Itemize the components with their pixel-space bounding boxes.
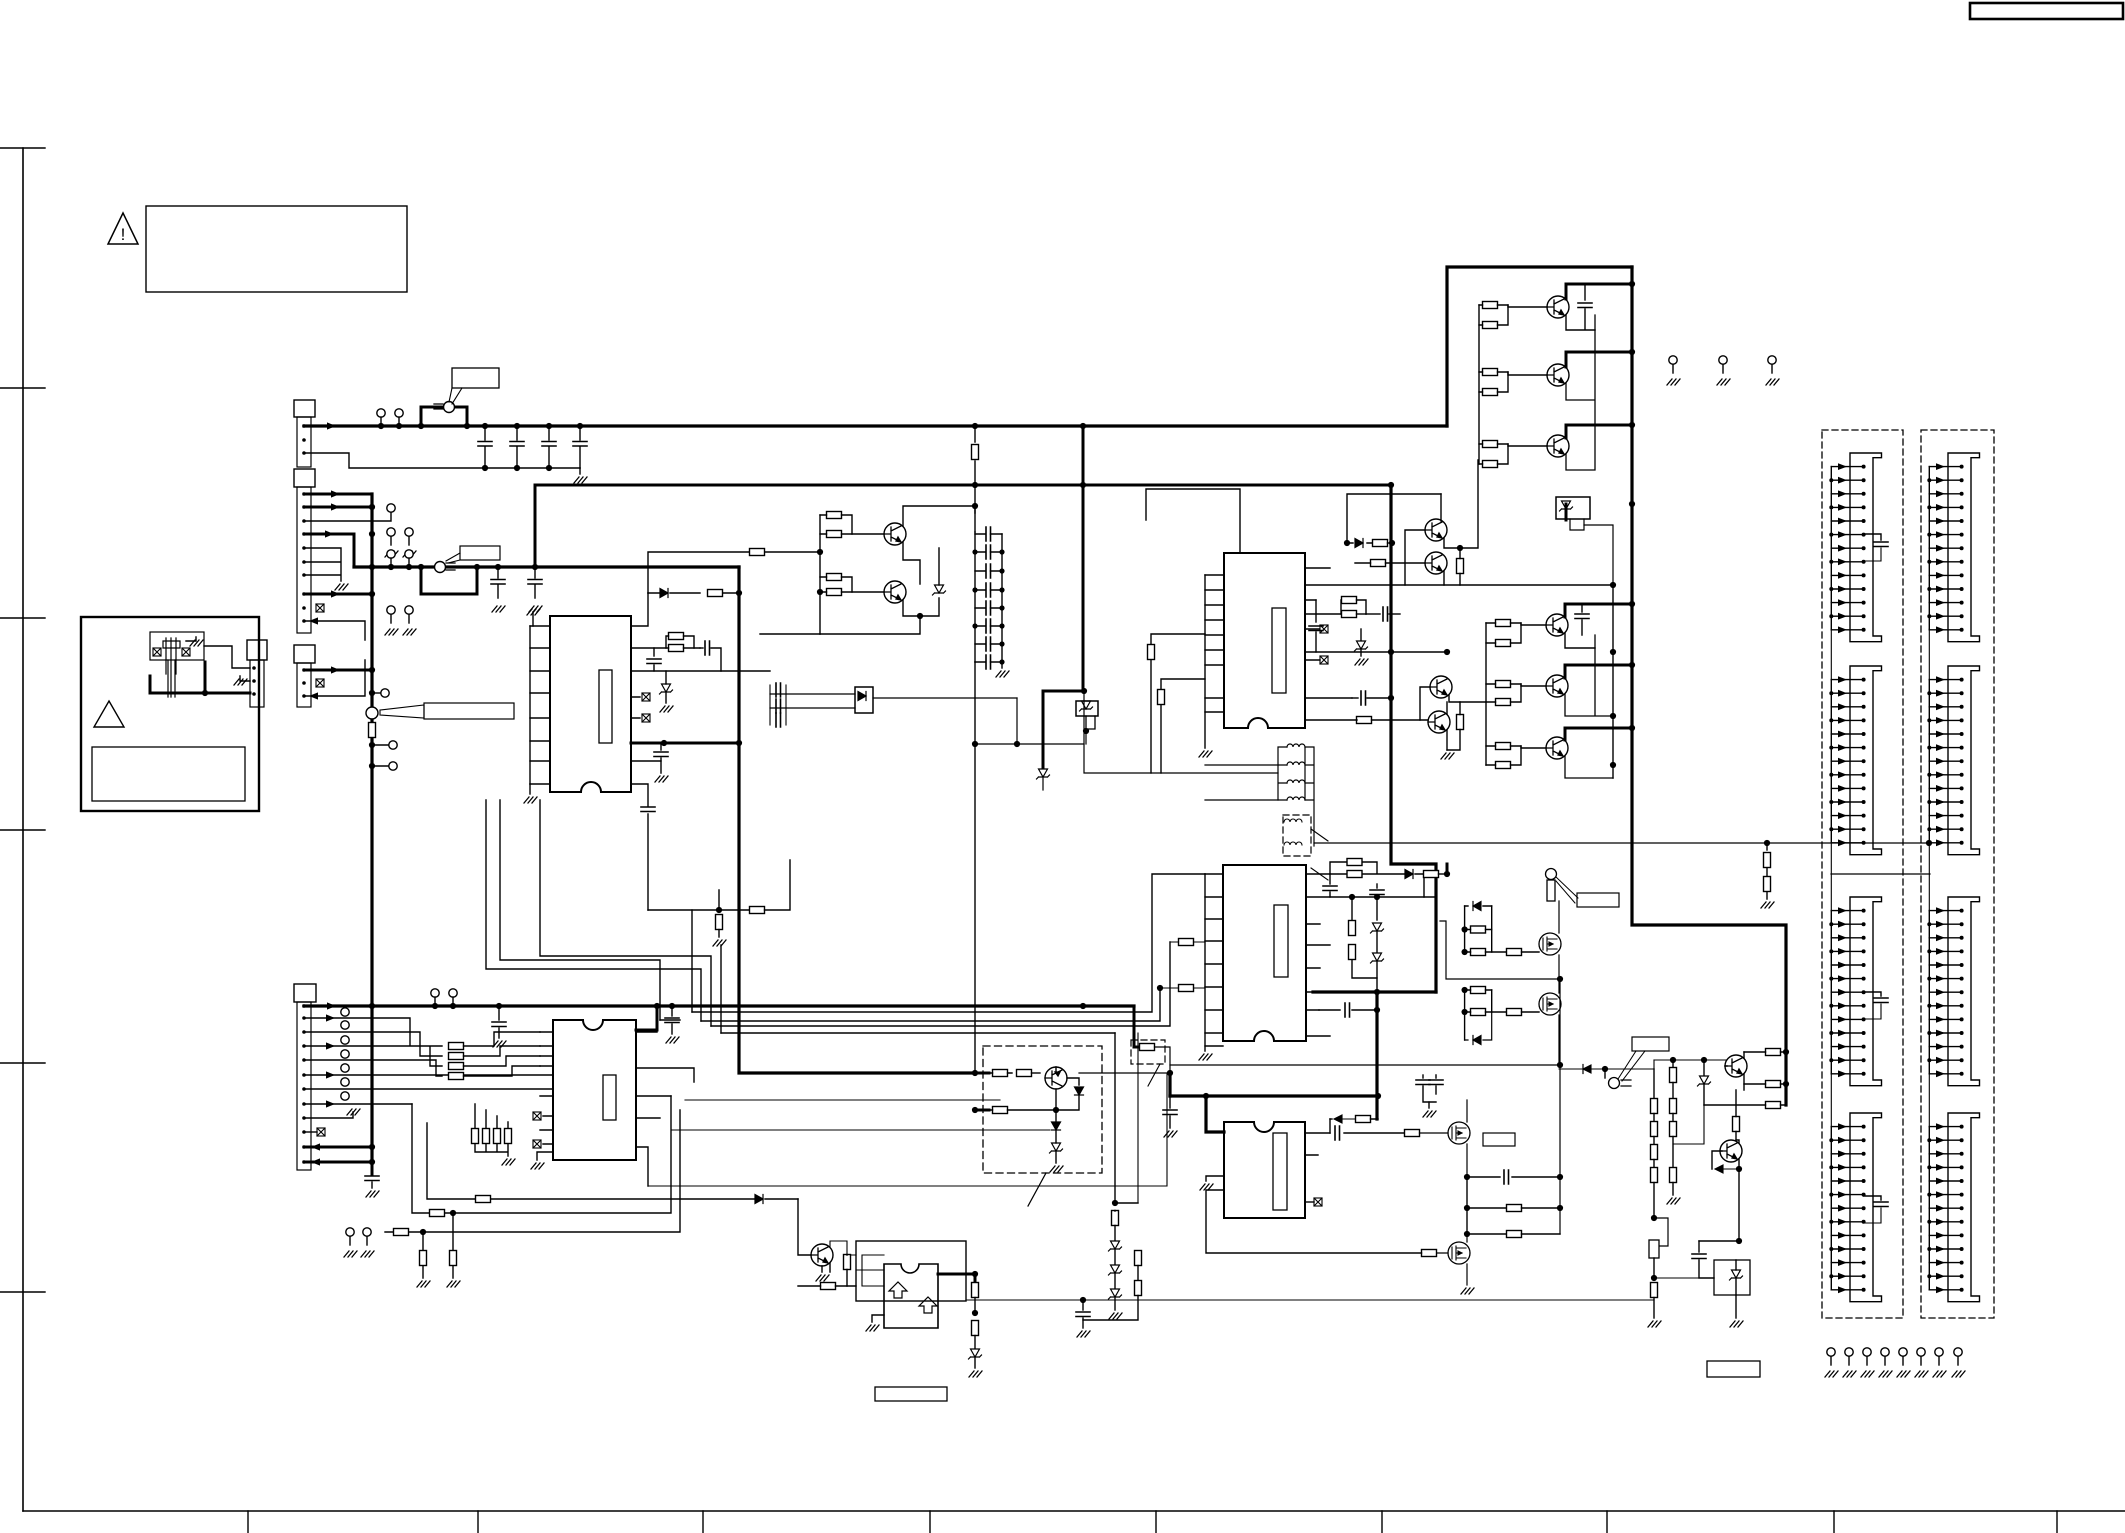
IC3 res pair R32a: [1342, 597, 1357, 604]
wire mid y1186: [648, 1073, 1167, 1186]
dot on IC3 652 wire: [1388, 649, 1394, 655]
IC3 top feed: [1146, 489, 1240, 553]
feeder joint wire: [1831, 873, 1930, 875]
IC1 rail ground top: [527, 609, 540, 615]
bottom border rule: [23, 1510, 2125, 1512]
q34 base res: [1371, 560, 1386, 567]
T1 option coils: [1284, 819, 1302, 845]
Q4 collector: [1565, 604, 1632, 617]
relay box RY2: [1565, 504, 1568, 520]
callout leader lines S1: [449, 388, 462, 404]
sense wire: [1314, 842, 1929, 844]
M4 ground: [1461, 1288, 1474, 1294]
IC5 cap C51: [1335, 1126, 1340, 1140]
IC1 pin 784 drop: [631, 784, 648, 910]
module zener Dm3: [1050, 1143, 1063, 1153]
IC6 outer box: [856, 1241, 966, 1301]
switch S2 contact: [435, 562, 446, 573]
zener on 1043: [1037, 769, 1050, 779]
opto diode: [858, 692, 866, 701]
bus junction dots: [378, 423, 384, 429]
zobel cap: [1082, 1300, 1084, 1310]
cap C6: [534, 567, 536, 598]
block2 res2: [1471, 1009, 1486, 1016]
connector CN-E pins: [252, 666, 256, 696]
trunk switch circle: [366, 707, 378, 719]
IC1 window: [599, 670, 612, 743]
module diode Dm2: [1052, 1122, 1061, 1130]
bottom res: [1651, 1283, 1658, 1298]
standby bus: [354, 565, 739, 568]
cap C5: [497, 567, 499, 598]
chain D2: [1109, 1265, 1122, 1275]
QB2 wiring: [1712, 1140, 1739, 1241]
Q3 res pair a: [1483, 441, 1498, 448]
Q1 cap: [1584, 284, 1586, 300]
CN-B pin8 wire: [304, 593, 372, 596]
IC4 R left b: [1179, 985, 1194, 992]
stack right wires: [464, 1032, 541, 1076]
MOSFET M3: [1448, 1122, 1470, 1144]
feed links column1: [1830, 629, 1832, 1127]
Q31/32 wiring: [1420, 687, 1486, 720]
IC3 zener D31: [1360, 629, 1362, 640]
callout leaders: [1618, 1051, 1645, 1081]
long wire y1213: [412, 1096, 671, 1213]
Q32: [1428, 711, 1450, 733]
chain ground: [1109, 1313, 1122, 1319]
sub rail drop to standby bus: [534, 485, 537, 567]
M4 gate feed: [1422, 1250, 1437, 1257]
snubber loop D32 R33: [1347, 494, 1441, 543]
decoupling cap C3: [548, 426, 550, 468]
connector CN-D box: [294, 984, 316, 1002]
bus arrow: [327, 422, 336, 429]
M4 wiring: [1437, 1234, 1468, 1285]
module R c: [993, 1107, 1008, 1114]
QB1 collector res: [1766, 1049, 1781, 1056]
chain R: [1112, 1211, 1119, 1226]
IC1 wire pin3: [631, 670, 770, 672]
comb 1B: [1829, 666, 1881, 855]
IC3 left rail: [1204, 575, 1206, 748]
IC2 left pin stubs: [540, 1032, 553, 1144]
res pair R23b: [827, 589, 842, 596]
thick node into IC4: [1313, 990, 1436, 993]
R31 drop: [1151, 634, 1205, 644]
T1 variant slashes: [1311, 829, 1328, 880]
connector CN-E strip: [250, 660, 264, 707]
feed links column2: [1928, 629, 1930, 1127]
decoupling cap C2: [516, 426, 518, 468]
CN-C box: [294, 645, 315, 663]
CN-D pin row wires: [304, 1018, 553, 1104]
M1 drain/source: [1558, 901, 1560, 979]
switch mechanism outline: [150, 632, 204, 660]
trunk 1391 down: [1391, 485, 1436, 992]
trunk lower dots: [369, 742, 375, 748]
R ladder A: [1653, 1069, 1655, 1098]
block1 res1: [1471, 926, 1486, 933]
IC4 left pins: [1205, 874, 1223, 1046]
bank cap 2: [986, 545, 991, 559]
IC1 left pins: [530, 626, 550, 784]
thick drop to IC5: [1375, 992, 1378, 1119]
MOSFET M4: [1448, 1242, 1470, 1264]
trunk x737 down: [739, 567, 975, 1073]
Q5 collector: [1565, 665, 1632, 678]
emitter chain: [1566, 315, 1595, 470]
feedback trunk res: [974, 1274, 977, 1283]
IC3 body: [1224, 553, 1305, 728]
label box bottom: [875, 1387, 947, 1401]
left zone tick 5: [0, 1062, 45, 1064]
IC4 R left a: [1179, 939, 1194, 946]
zener DB: [1703, 1060, 1705, 1075]
rail dots: [482, 465, 488, 471]
C5 ground: [492, 606, 505, 612]
drop x1170: [1168, 1073, 1171, 1096]
relay box RY1: [1076, 701, 1098, 716]
Q61 emitter res: [822, 1263, 830, 1272]
transistor Q21: [884, 523, 906, 545]
CN-C pins: [302, 668, 306, 698]
QB1 wiring: [1725, 1052, 1744, 1090]
trunk wire CN-B to CN-D: [370, 494, 373, 1160]
module dashed box: [983, 1046, 1102, 1173]
trunk dots at module: [972, 1070, 978, 1076]
detail warning triangle: [94, 701, 124, 727]
R35 vertical: [1457, 715, 1464, 730]
block1 rails: [1465, 906, 1492, 952]
block1 gate res: [1507, 949, 1522, 956]
IC1 thick out pin: [631, 742, 739, 745]
dots on rail: [817, 549, 823, 555]
junction dot switch bottom: [202, 690, 208, 696]
switch inner ground: [186, 637, 196, 641]
thick stub into box: [1134, 1008, 1139, 1047]
IC1 pin row 761: [631, 761, 661, 773]
IC1 cap C13: [660, 743, 662, 750]
bundle H 2: [701, 988, 1160, 1021]
dot on sub rail: [972, 482, 978, 488]
thick frame top: [1447, 267, 1632, 426]
T1 primary coils: [1278, 747, 1287, 800]
IC5 feed cap: [1169, 1096, 1171, 1108]
callout label box S2: [460, 546, 500, 560]
label box M3: [1483, 1133, 1515, 1146]
Q61 base: [798, 1199, 811, 1255]
TP stem pair on bus 1: [387, 550, 395, 558]
bus TPs: [431, 989, 439, 997]
decoupling cap C4: [579, 426, 581, 468]
Q61 collector: [830, 1241, 856, 1255]
standby bus dots: [369, 564, 375, 570]
trunk callout pointer: [380, 705, 424, 718]
rail for res pairs: [819, 515, 821, 634]
bottom zone ticks: [248, 1511, 2057, 1533]
thick corner 1390 y497 label context: [1388, 482, 1394, 488]
IC6 opamp A: [889, 1282, 907, 1298]
R61: [821, 1283, 836, 1290]
R34 on 720: [1357, 717, 1372, 724]
SCR box: [1714, 1260, 1750, 1295]
IC1 left rail: [530, 612, 533, 784]
bundle U route 1: [486, 800, 701, 1021]
CN-B strip: [297, 487, 311, 633]
block2 diode: [1473, 1036, 1481, 1045]
source rail x1560: [1559, 979, 1561, 1234]
Q31: [1430, 676, 1452, 698]
CN-A strip: [297, 417, 311, 467]
M3 wiring: [1466, 1100, 1468, 1177]
opto input wires: [770, 694, 855, 708]
wire y1073 right: [1079, 1072, 1170, 1074]
IC1 rail ground bottom: [529, 784, 531, 794]
bundle vertical 5: [720, 945, 722, 1033]
trunk TP circle: [372, 692, 380, 694]
bus elbow into IC2: [636, 1006, 657, 1030]
CN-D row arrows: [326, 1014, 335, 1021]
module wiring: [1056, 1067, 1079, 1085]
bottom res pair: [450, 1210, 456, 1216]
IC6 body: [884, 1264, 938, 1328]
upper Q pair q34: [1425, 552, 1447, 574]
CN-B pin10 wire arrow-in: [304, 621, 365, 640]
IC1 res pair R11b: [669, 645, 684, 652]
IC5 caps right: [1422, 1075, 1424, 1078]
thick right rail: [1632, 267, 1786, 1105]
IC3 xbox pins: [1320, 625, 1328, 633]
IC2 body: [553, 1020, 636, 1160]
bank2 base rail: [1485, 623, 1487, 765]
CN-A box: [294, 400, 315, 417]
IC6 opamp B: [919, 1297, 937, 1313]
IC5 body: [1224, 1122, 1305, 1218]
left border rule: [22, 148, 24, 1511]
trunk lower TPs: [372, 744, 388, 746]
bank2 Q4: [1546, 614, 1568, 636]
Q1 output: [1547, 296, 1569, 318]
CN-D pins: [302, 1004, 306, 1164]
left zone tick top: [0, 147, 45, 149]
switch terminal X left: [153, 648, 161, 656]
bottom test point row: [1825, 1348, 1838, 1377]
thick corner into relay: [1043, 691, 1084, 768]
switch blade mark: [434, 404, 443, 409]
IC4 R41: [1351, 897, 1353, 920]
base res low: [1766, 1102, 1781, 1109]
TP on pin3: [387, 504, 395, 512]
wire y1060: [1654, 1059, 1727, 1061]
block2 gate res: [1507, 1009, 1522, 1016]
cap return rail: [304, 453, 580, 468]
CN-B pin2 wire: [304, 506, 372, 509]
MOSFET M1: [1539, 933, 1561, 955]
svg-text:!: !: [121, 225, 126, 244]
driver Q61: [811, 1244, 833, 1266]
Q1 collector thick: [1566, 284, 1632, 299]
bank ground: [1001, 662, 1003, 668]
IC1 body: [550, 616, 631, 792]
chain stem: [1114, 1033, 1116, 1203]
IC1 xbox pins: [631, 697, 640, 718]
switch contact circle S1: [444, 402, 455, 413]
RY2 sub: [1570, 519, 1584, 530]
MOSFET M2: [1539, 993, 1561, 1015]
resistor on x=975 drop: [974, 426, 976, 513]
IC5 right wiring: [1305, 1133, 1405, 1155]
switch terminal X right: [182, 648, 190, 656]
T1 input stubs: [1205, 765, 1278, 800]
pins5-7 ground: [335, 584, 348, 590]
CN-D xbox pin: [317, 1128, 325, 1136]
IC6 out wire y1300: [966, 1299, 1654, 1301]
pot: [1651, 1215, 1657, 1221]
long wire y1232: [385, 1110, 680, 1232]
resistor divider on sense: [1764, 840, 1770, 846]
module ground: [1050, 1166, 1063, 1172]
Q2 output: [1547, 364, 1569, 386]
ground Q pair: [1446, 730, 1448, 750]
bundle U route 2: [500, 800, 660, 1020]
resistor network stack: [449, 1043, 464, 1050]
Q3 output: [1547, 435, 1569, 457]
res row 1208: [1466, 1177, 1468, 1208]
fuse/switch loop on bus: [421, 407, 467, 426]
main top bus: [304, 424, 1447, 427]
comb cap 1A: [1864, 534, 1881, 540]
wire y1069: [1559, 1068, 1654, 1070]
block1 res2: [1471, 949, 1486, 956]
decoupling cap C1: [484, 426, 486, 468]
comb 2A: [1927, 453, 1979, 642]
TP pair gnd 2: [403, 528, 416, 557]
module leader slash: [1028, 1173, 1046, 1206]
Q4 res pair: [1496, 620, 1511, 627]
Q1 res pair a: [1483, 302, 1498, 309]
source cap row: [1464, 1174, 1470, 1180]
comb 2B: [1927, 666, 1979, 855]
T1 right rail: [1305, 747, 1314, 846]
callout label: [1632, 1037, 1669, 1051]
res pair R23a: [827, 574, 842, 581]
IC2 left xboxes: [533, 1112, 541, 1120]
CN-B pin3 wire to TP: [304, 513, 391, 521]
box leader slash: [1148, 1064, 1160, 1086]
bank cap 4: [986, 583, 991, 597]
bank cap 5: [986, 601, 991, 615]
SCR ground: [1735, 1295, 1737, 1318]
cap bank left rail: [974, 532, 976, 662]
SCR cap: [1699, 1240, 1739, 1242]
M1 source wire: [1440, 921, 1560, 979]
bus 1006: [304, 1004, 1134, 1007]
CN-B pin4 wire: [304, 534, 354, 567]
IC6 in wiring: [856, 1255, 884, 1286]
CN-D pin9 gnd: [304, 1112, 353, 1118]
comb 2D: [1927, 1113, 1979, 1302]
CN-C pin1 wire: [304, 669, 372, 672]
bundle H 5: [660, 1019, 680, 1021]
Q2 res pair a: [1483, 369, 1498, 376]
CN-B pins5-7 tie: [304, 548, 341, 581]
IC2 right pins: [636, 1032, 694, 1186]
IC4 left rail: [1204, 874, 1206, 1051]
D12: [660, 589, 668, 598]
dashed box CN column 1: [1822, 430, 1903, 1318]
relay TP leaders: [1556, 877, 1578, 903]
small dashed res box: [1131, 1040, 1165, 1064]
IC1 res pair R11a: [669, 633, 684, 640]
callout leader S2: [446, 553, 460, 563]
switch wire to connector pin1: [204, 646, 250, 668]
IC3 cap C32: [1366, 613, 1380, 615]
bank base rail: [1478, 305, 1480, 464]
node joins: [972, 503, 978, 509]
test point TP2: [395, 409, 403, 417]
caution note box: [146, 206, 407, 292]
left zone tick 6: [0, 1291, 45, 1293]
transistor Q22: [884, 581, 906, 603]
rail x1613: [1612, 585, 1614, 778]
CN-D arrow-in pins: [304, 1146, 372, 1149]
dashed box CN column 2: [1921, 430, 1994, 1318]
q33 wiring: [1405, 460, 1478, 585]
IC1 C14: [641, 807, 655, 812]
CN-B pin9 X mark: [316, 604, 324, 612]
res pair R22b: [827, 531, 842, 538]
base resistor R21: [750, 549, 765, 556]
TP pair gnd 1: [385, 528, 398, 557]
emitter res: [1766, 1081, 1781, 1088]
IC4 cap C43: [1319, 1009, 1340, 1011]
wire y744: [975, 743, 1084, 745]
Q3 collector thick: [1566, 425, 1632, 438]
Q5 res pair: [1496, 681, 1511, 688]
R62 vertical: [844, 1255, 851, 1270]
bundle U route 3: [540, 800, 711, 1026]
resistor array row: [475, 1104, 508, 1128]
detail inner note box: [92, 747, 245, 801]
long wire y1199: [427, 1123, 798, 1199]
bank cap 8: [986, 655, 991, 669]
comb 1D: [1829, 1113, 1881, 1302]
IC2 pin stub 1118: [636, 1117, 660, 1119]
coil column small: [769, 685, 771, 725]
CN-C pin2 X mark: [316, 679, 324, 687]
res pair R22a: [827, 512, 842, 519]
bundle H 4: [721, 1032, 1115, 1034]
cap bank right rail: [1001, 534, 1003, 662]
comb 1C: [1829, 897, 1881, 1086]
module junction: [1053, 1107, 1059, 1113]
detail box outline: [81, 617, 259, 811]
diode D12 + R12 feed: [648, 592, 739, 594]
comb 2C: [1927, 897, 1979, 1086]
IC2 gnd left: [537, 1152, 553, 1160]
TP switch circle: [1609, 1078, 1620, 1089]
wire bottom to connector pin3: [205, 692, 250, 695]
CN-B box: [294, 469, 315, 487]
CN-D strip: [297, 1002, 311, 1170]
TP pair gnd 4: [403, 606, 416, 635]
IC3 window: [1272, 608, 1286, 693]
bank cap 1: [986, 527, 991, 541]
module R b: [1017, 1070, 1032, 1077]
left zone tick 3: [0, 617, 45, 619]
diode QB2: [1715, 1165, 1739, 1173]
